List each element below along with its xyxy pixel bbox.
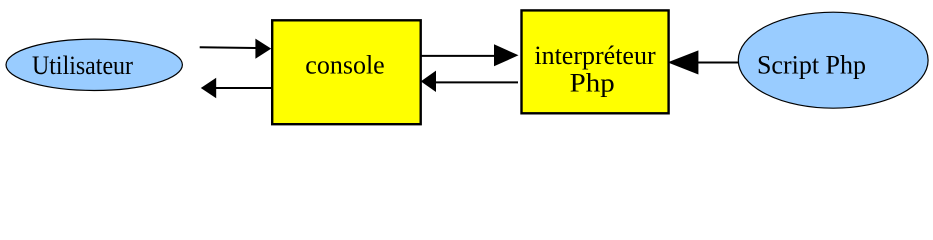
arrowhead console-to-user <box>201 78 216 99</box>
wire arrow interpreter-to-console shaft <box>434 81 518 83</box>
svg-text:Script Php: Script Php <box>757 51 866 80</box>
arrowhead console-to-interpreter <box>494 44 519 66</box>
ellipse Script Php <box>738 12 928 108</box>
box interpreteur Php <box>522 10 669 113</box>
arrowhead interpreter-to-console <box>421 71 436 92</box>
svg-text:Utilisateur: Utilisateur <box>32 51 133 80</box>
svg-text:Php: Php <box>570 69 615 98</box>
wire arrow script-to-interpreter shaft <box>697 62 739 64</box>
svg-text:console: console <box>305 51 384 80</box>
arrowhead script-to-interpreter <box>668 50 699 74</box>
wire arrow console-to-user shaft <box>215 87 271 89</box>
wire arrow console-to-interpreter shaft <box>421 55 496 57</box>
arrowhead user-to-console <box>255 39 271 59</box>
ellipse Utilisateur <box>6 39 182 90</box>
box console <box>272 20 421 124</box>
svg-text:interpréteur: interpréteur <box>534 41 656 70</box>
wire arrow user-to-console shaft <box>200 46 257 49</box>
